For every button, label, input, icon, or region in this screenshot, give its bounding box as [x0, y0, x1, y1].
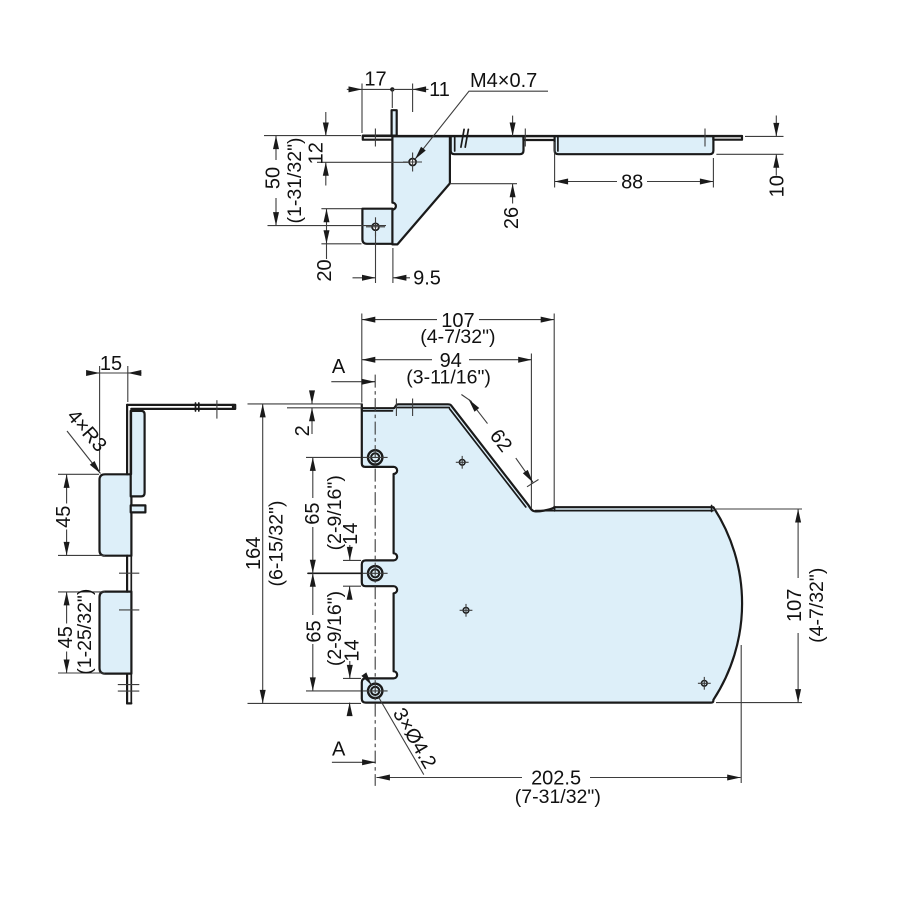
svg-text:11: 11: [429, 79, 450, 101]
svg-text:(6-15/32"): (6-15/32"): [266, 500, 288, 586]
svg-text:45: 45: [53, 506, 75, 528]
svg-text:(1-31/32"): (1-31/32"): [284, 137, 306, 223]
svg-text:14: 14: [342, 639, 364, 661]
svg-text:12: 12: [306, 142, 328, 164]
svg-text:50: 50: [263, 167, 285, 189]
svg-text:(3-11/16"): (3-11/16"): [406, 366, 491, 388]
svg-text:(7-31/32"): (7-31/32"): [515, 786, 601, 808]
svg-text:65: 65: [302, 502, 324, 524]
svg-text:2: 2: [292, 425, 314, 436]
svg-text:14: 14: [340, 523, 362, 545]
svg-text:17: 17: [364, 69, 386, 91]
svg-text:10: 10: [767, 175, 789, 197]
svg-text:M4×0.7: M4×0.7: [470, 70, 537, 92]
svg-text:20: 20: [314, 259, 336, 281]
svg-text:26: 26: [501, 207, 523, 229]
svg-text:(4-7/32"): (4-7/32"): [806, 568, 828, 643]
svg-text:88: 88: [621, 172, 643, 194]
svg-text:A: A: [332, 738, 346, 760]
svg-text:(1-25/32"): (1-25/32"): [74, 589, 96, 675]
svg-text:15: 15: [100, 353, 122, 375]
svg-text:(4-7/32"): (4-7/32"): [420, 326, 495, 348]
svg-text:65: 65: [304, 620, 326, 642]
svg-text:164: 164: [243, 537, 265, 570]
svg-text:9.5: 9.5: [413, 268, 441, 290]
svg-text:A: A: [332, 356, 346, 378]
svg-text:107: 107: [784, 589, 806, 622]
